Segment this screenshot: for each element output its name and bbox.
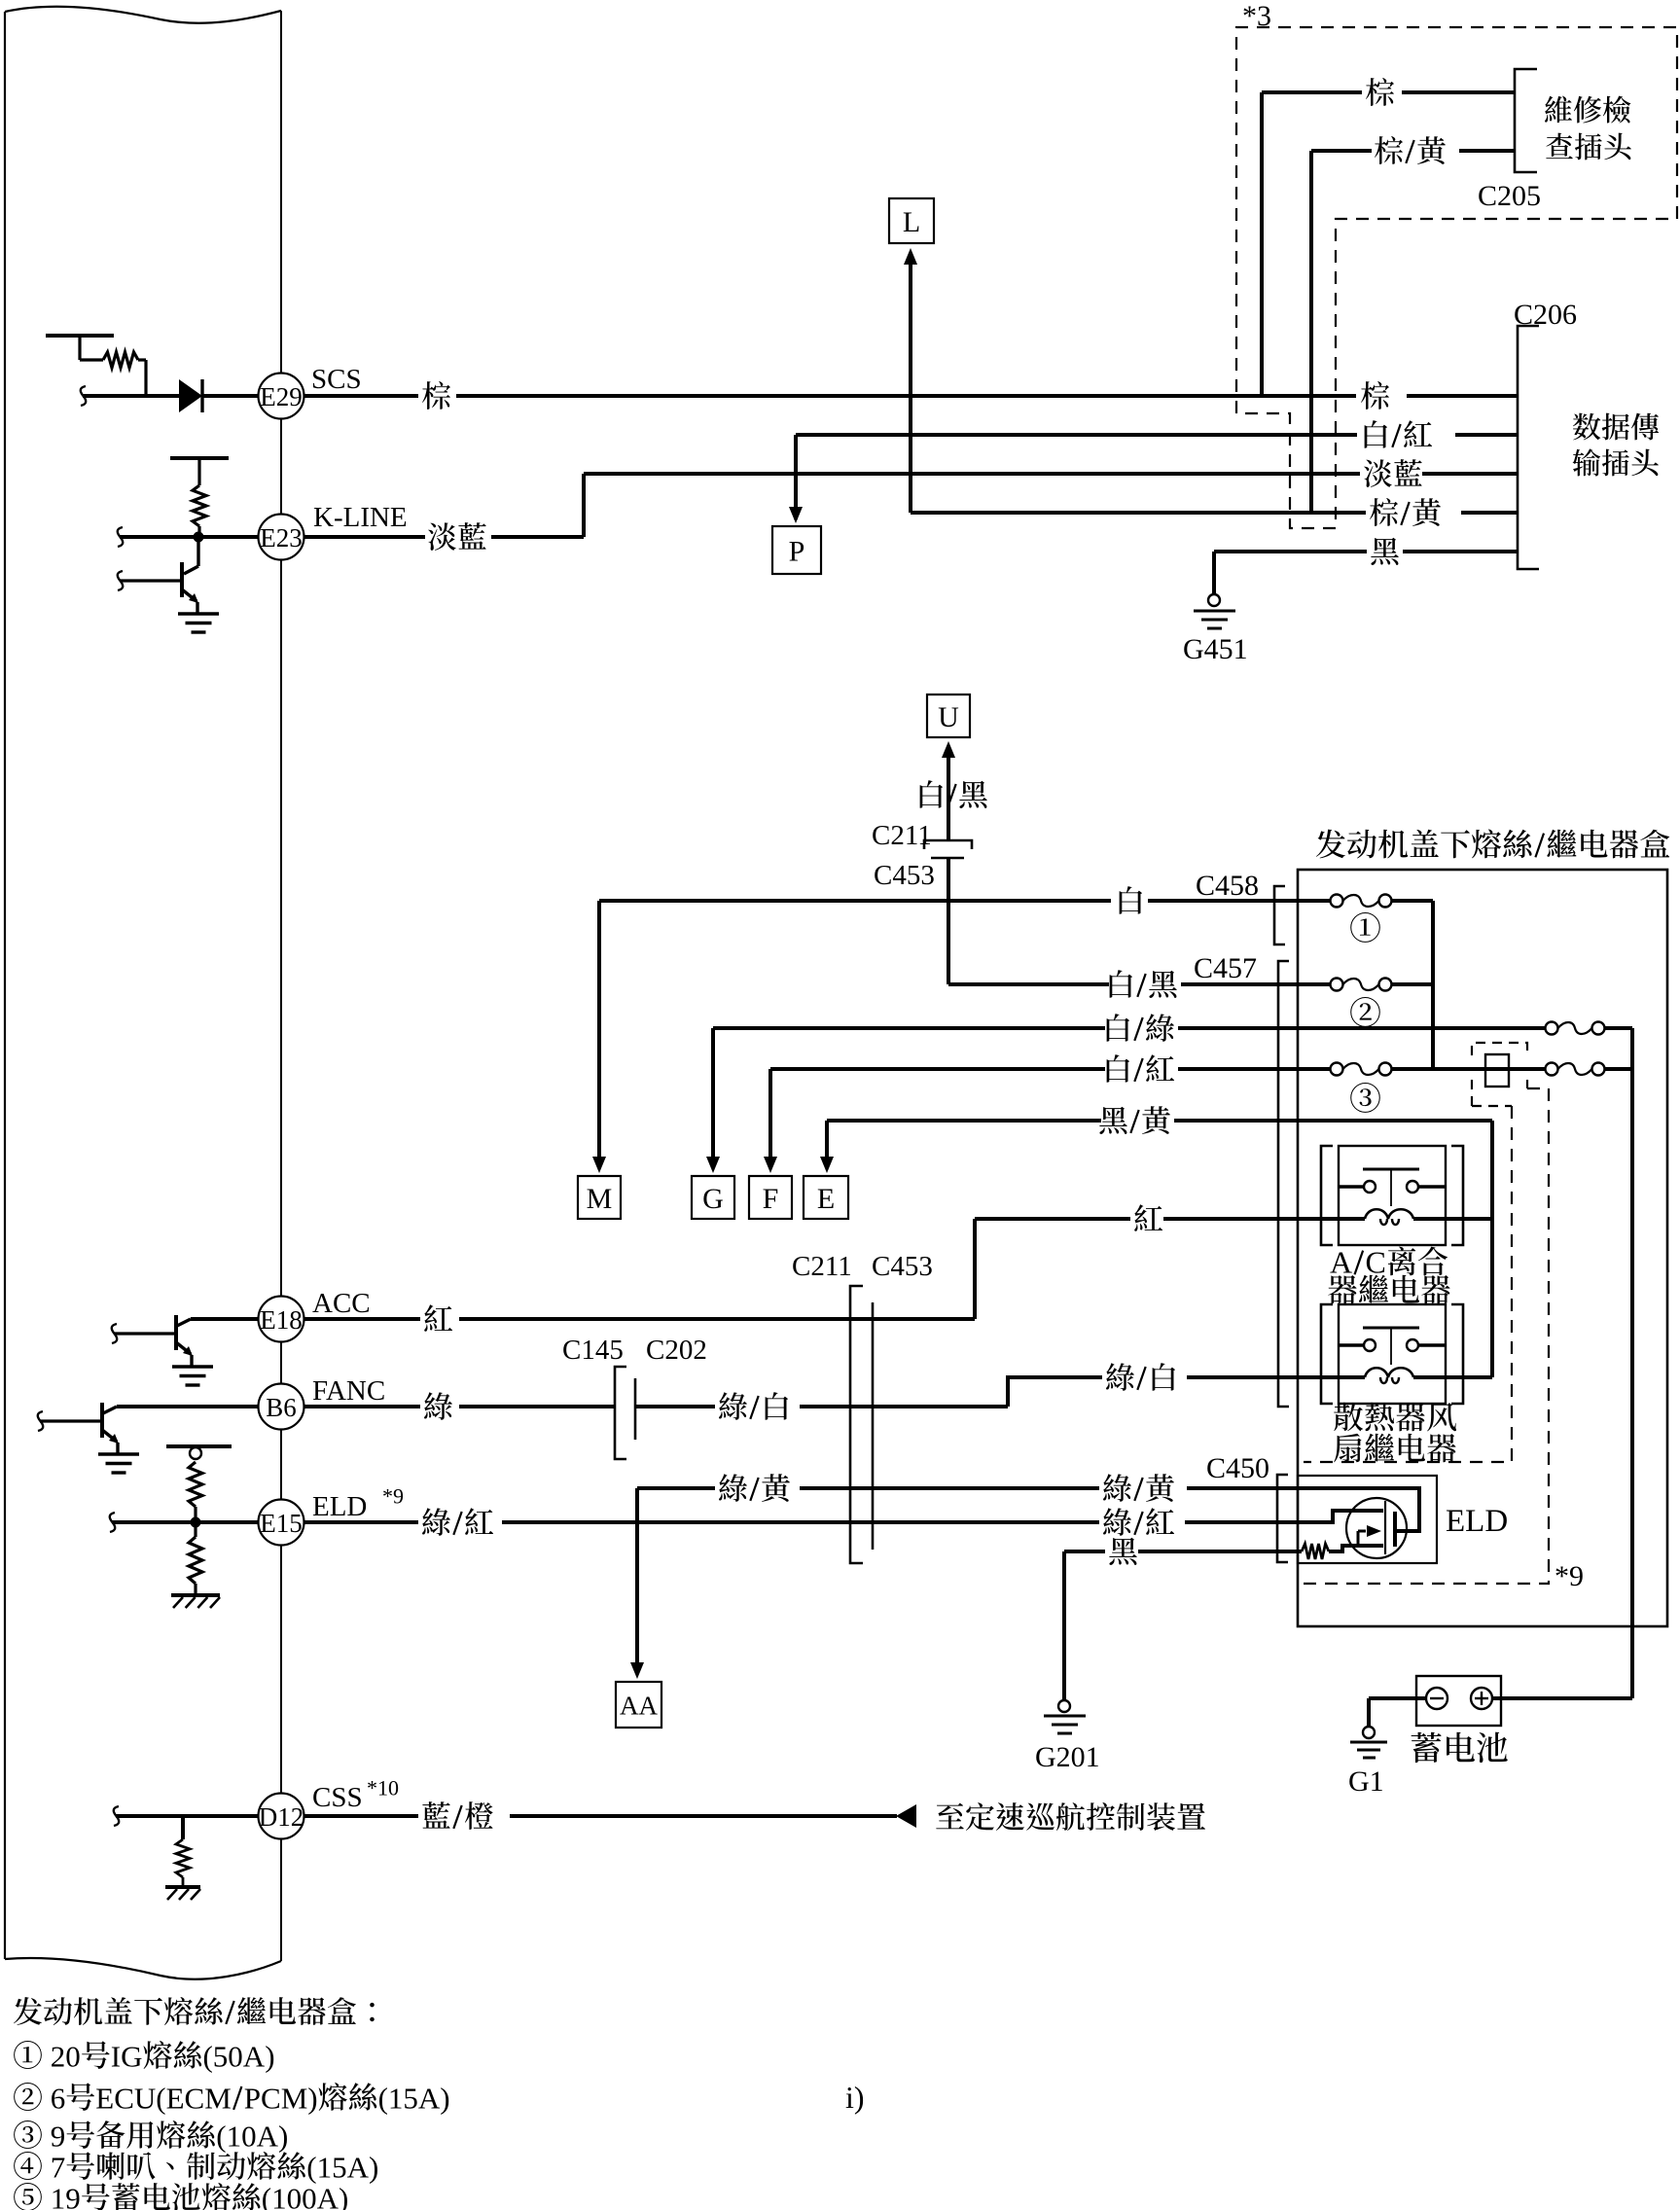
ground (transistor emitter): [98, 1454, 139, 1473]
transistor ELD (FET in circle): [1346, 1498, 1407, 1558]
label white/green: [1107, 1014, 1129, 1042]
svg-text:A: A: [347, 2150, 370, 2184]
svg-text:E: E: [95, 2081, 114, 2115]
label white: [1120, 886, 1142, 914]
svg-text:E: E: [817, 1183, 835, 1215]
node junction ELD: [191, 1517, 201, 1528]
node U flow arrow: [927, 695, 970, 813]
gate arrow inside ELD: [1358, 1525, 1381, 1546]
wire ELD internal: [110, 1513, 259, 1532]
transistor (ACC driver): [177, 1319, 259, 1326]
dashed *9 boundary right: [1304, 1088, 1549, 1584]
svg-text:0: 0: [228, 2039, 243, 2073]
wire K-LINE light blue: [304, 474, 1518, 537]
ECU connector band: [5, 7, 281, 1979]
wire battery minus: [1369, 1698, 1426, 1727]
svg-text:5: 5: [332, 2150, 347, 2184]
ELD unit box: [1298, 1476, 1508, 1563]
wire blue/orange: [304, 1814, 897, 1818]
wire white/black row: [948, 982, 1331, 986]
svg-text:): ): [265, 2039, 274, 2073]
svg-text:G: G: [702, 1183, 724, 1215]
wire black/yellow row: [820, 1121, 1492, 1173]
wire green/yellow row: [630, 1488, 1298, 1679]
wire white/red row: [764, 1069, 1331, 1173]
svg-text:L: L: [903, 206, 920, 238]
fuse 5 (battery) right: [1546, 1063, 1633, 1076]
ground G1: [1348, 1727, 1387, 1798]
wire black (ELD ground): [1064, 1551, 1298, 1700]
svg-text:C453: C453: [874, 860, 935, 891]
relay radiator fan: [1321, 1304, 1463, 1404]
label light-blue (C206): [1364, 459, 1392, 486]
label white/red (C206): [1365, 420, 1387, 448]
svg-text:M: M: [281, 2081, 308, 2115]
resistor (ELD sense): [1298, 1544, 1383, 1559]
wire green (FANC): [304, 1405, 615, 1408]
connector C206 bracket: [1514, 299, 1577, 569]
connector C457 bracket: [1194, 952, 1289, 1407]
ground (CSS pulldown): [165, 1887, 200, 1900]
svg-text:A: A: [317, 2181, 340, 2210]
connector C211/C453 (white/black wire): [872, 820, 972, 891]
label green/yellow (left): [719, 1474, 747, 1502]
svg-text:i): i): [845, 2080, 865, 2115]
svg-text:E29: E29: [260, 382, 303, 411]
resistor (pull-up at SCS): [46, 336, 146, 396]
svg-text:C: C: [1366, 1245, 1386, 1280]
wire white/red row to C206: [796, 433, 1518, 437]
svg-text:U: U: [134, 2081, 156, 2115]
svg-text:*9: *9: [1555, 1560, 1584, 1592]
wire battery feed vertical: [1630, 1028, 1634, 1698]
label green: [424, 1392, 452, 1420]
svg-text:C: C: [185, 2081, 205, 2115]
svg-text:G201: G201: [1035, 1741, 1100, 1773]
fuse/relay box outline: [1298, 870, 1667, 1626]
legend title: [14, 1997, 42, 2025]
svg-text:E15: E15: [260, 1509, 303, 1538]
wire white/black vertical: [947, 813, 950, 984]
node E flow arrow: [804, 1176, 848, 1219]
svg-text:AA: AA: [620, 1692, 658, 1721]
svg-text:A: A: [243, 2039, 266, 2073]
svg-text:(: (: [216, 2119, 226, 2153]
label A/C clutch relay: [1328, 1245, 1449, 1304]
svg-text:I: I: [111, 2039, 121, 2073]
svg-text:6: 6: [51, 2081, 66, 2115]
svg-text:C450: C450: [1206, 1452, 1269, 1484]
label service check connector: [1545, 96, 1631, 160]
diode (SCS line): [179, 379, 259, 412]
svg-text:1: 1: [227, 2119, 242, 2153]
fuse 4 (horn/brake) right top: [1546, 1022, 1633, 1035]
label green/white (left): [719, 1392, 747, 1420]
label blue/orange: [422, 1801, 449, 1829]
svg-text:0: 0: [65, 2039, 81, 2073]
wire A/C relay coil to black/yellow vertical: [1446, 1217, 1492, 1221]
svg-text:*10: *10: [367, 1776, 399, 1800]
label brown/yellow (C205): [1375, 136, 1403, 164]
battery: [1416, 1676, 1501, 1726]
label brown (C206): [1361, 381, 1389, 410]
label battery: [1412, 1732, 1442, 1763]
node L flow arrow: [889, 198, 934, 513]
label fuse 1: [1350, 912, 1380, 943]
label white/black (row): [1110, 970, 1132, 998]
connector C211/C453 (main harness): [792, 1251, 933, 1563]
pin E15: [259, 1484, 405, 1546]
ground (divider): [171, 1595, 220, 1608]
label green/white (right): [1106, 1363, 1134, 1391]
svg-text:2: 2: [51, 2039, 66, 2073]
label under-hood fuse/relay box title: [1316, 830, 1345, 859]
svg-text:0: 0: [287, 2181, 303, 2210]
svg-text:ELD: ELD: [1446, 1504, 1508, 1539]
node M flow arrow: [578, 1176, 621, 1219]
wire brown/yellow row to C206: [911, 511, 1518, 515]
wire brown to C205: [1262, 92, 1515, 396]
svg-text:(: (: [378, 2081, 388, 2115]
svg-text:U: U: [938, 701, 959, 733]
voltage supply with resistor divider (ELD input): [166, 1446, 232, 1517]
relay (small, dashed): [1472, 1043, 1527, 1106]
svg-text:C206: C206: [1514, 299, 1577, 331]
label brown (C205): [1366, 78, 1394, 106]
svg-text:(: (: [262, 2181, 271, 2210]
pin E23: [259, 502, 408, 560]
relay A/C compressor clutch: [1321, 1146, 1463, 1245]
ground (transistor emitter): [172, 1367, 213, 1385]
label fuse 2: [1350, 997, 1380, 1027]
wire SCS internal: [81, 386, 179, 406]
svg-text:C458: C458: [1196, 870, 1259, 902]
label red (ACC): [424, 1304, 452, 1332]
svg-text:9: 9: [51, 2119, 66, 2153]
node junction K-LINE: [194, 532, 204, 543]
svg-text:K-LINE: K-LINE: [313, 502, 408, 533]
svg-text:0: 0: [302, 2181, 317, 2210]
arrow to cruise control: [896, 1804, 916, 1828]
svg-text:C202: C202: [646, 1335, 707, 1366]
wire red row: [975, 1219, 1339, 1319]
svg-text:F: F: [763, 1183, 779, 1215]
svg-text:A: A: [1330, 1245, 1352, 1280]
wire battery plus: [1492, 1696, 1632, 1700]
connector C450 bracket: [1206, 1452, 1288, 1562]
label to cruise control unit: [936, 1803, 964, 1830]
svg-text:E23: E23: [260, 523, 303, 552]
svg-text:C457: C457: [1194, 952, 1257, 984]
legend item 5: [14, 2181, 348, 2210]
fuse 3: [1298, 1063, 1546, 1076]
svg-text:C145: C145: [562, 1335, 624, 1366]
svg-text:C: C: [114, 2081, 134, 2115]
pin B6: [259, 1375, 386, 1430]
svg-text:E: E: [166, 2081, 185, 2115]
svg-text:1: 1: [388, 2081, 404, 2115]
wire CSS internal: [114, 1806, 259, 1826]
svg-text:1: 1: [51, 2181, 66, 2210]
label green/yellow (right): [1103, 1474, 1131, 1502]
label green/red (right): [1103, 1508, 1131, 1536]
svg-text:P: P: [789, 536, 805, 568]
svg-text:(: (: [156, 2081, 165, 2115]
wire fan relay coil to vertical: [1446, 1375, 1492, 1379]
svg-text:): ): [369, 2150, 378, 2184]
legend item 3: [14, 2119, 288, 2153]
wire black to C206: [1214, 552, 1518, 593]
wire red (ACC): [304, 1317, 975, 1321]
resistor (CSS pulldown): [176, 1816, 190, 1885]
label radiator fan relay: [1334, 1403, 1456, 1463]
svg-text:SCS: SCS: [311, 364, 362, 395]
svg-text:A: A: [418, 2081, 441, 2115]
wire green/yellow inside ELD: [1298, 1488, 1419, 1531]
label white/red (row): [1107, 1054, 1129, 1083]
svg-text:C211: C211: [872, 820, 932, 851]
label black/yellow: [1099, 1107, 1127, 1134]
svg-text:G451: G451: [1183, 633, 1248, 665]
label red: [1134, 1204, 1162, 1231]
label light-blue (K-LINE): [428, 522, 456, 550]
svg-text:C453: C453: [872, 1251, 933, 1282]
svg-text:C: C: [261, 2081, 281, 2115]
label green/red (left): [422, 1508, 450, 1536]
node F flow arrow: [749, 1176, 792, 1219]
svg-text:5: 5: [403, 2081, 418, 2115]
svg-text:*3: *3: [1242, 0, 1271, 32]
pin D12: [259, 1776, 400, 1839]
legend item 2: [14, 2081, 449, 2115]
svg-text:1: 1: [317, 2150, 333, 2184]
svg-text:7: 7: [51, 2150, 66, 2184]
ground G201: [1035, 1700, 1100, 1773]
dashed *9 boundary left: [1304, 1106, 1512, 1462]
label black (ELD): [1109, 1538, 1137, 1565]
legend item 1: [14, 2039, 274, 2073]
transistor (FANC driver): [103, 1407, 259, 1413]
svg-text:D12: D12: [259, 1802, 304, 1832]
svg-text:G: G: [121, 2039, 142, 2073]
label brown (SCS): [422, 381, 450, 410]
pin E29: [259, 364, 362, 419]
node P flow arrow: [772, 435, 821, 574]
svg-text:C211: C211: [792, 1251, 852, 1282]
fuse 2: [1298, 979, 1433, 991]
svg-text:): ): [339, 2181, 348, 2210]
label black (C206): [1371, 538, 1399, 565]
svg-text:P: P: [244, 2081, 261, 2115]
svg-text:CSS: CSS: [312, 1782, 363, 1813]
connector C458 bracket: [1196, 870, 1285, 945]
label white/black (vertical): [920, 780, 943, 808]
svg-text:9: 9: [65, 2181, 81, 2210]
svg-text:(: (: [203, 2039, 213, 2073]
node AA flow arrow: [616, 1682, 661, 1728]
svg-text:5: 5: [213, 2039, 229, 2073]
svg-text:B6: B6: [266, 1393, 297, 1422]
svg-text:FANC: FANC: [312, 1375, 385, 1407]
wire SCS brown to C206: [304, 394, 1518, 398]
svg-text:ELD: ELD: [312, 1491, 367, 1522]
wire green/white: [635, 1377, 1339, 1407]
svg-text:C205: C205: [1478, 180, 1541, 212]
wire black/yellow vertical: [1490, 1121, 1494, 1377]
svg-text:0: 0: [241, 2119, 257, 2153]
wire brown/yellow to C205: [1311, 151, 1515, 513]
wire white row: [592, 901, 1331, 1173]
svg-text:): ): [440, 2081, 449, 2115]
svg-text:1: 1: [271, 2181, 287, 2210]
resistor (lower divider): [189, 1527, 202, 1593]
legend item 4: [14, 2150, 378, 2184]
wire fuse1/2 junction vertical: [1431, 901, 1435, 1069]
svg-text:M: M: [204, 2081, 232, 2115]
resistor (pull-up at K-LINE): [170, 458, 229, 532]
wire white/green row: [706, 1028, 1546, 1173]
svg-text:A: A: [257, 2119, 279, 2153]
connector C145/C202: [562, 1335, 707, 1459]
svg-text:ACC: ACC: [312, 1288, 371, 1319]
svg-text:*9: *9: [382, 1484, 404, 1509]
node G flow arrow: [692, 1176, 734, 1219]
svg-text:(: (: [306, 2150, 316, 2184]
label data link connector: [1573, 413, 1660, 477]
svg-text:): ): [278, 2119, 288, 2153]
pin E18: [259, 1288, 371, 1342]
wire green/red inside ELD: [1298, 1511, 1383, 1522]
fuse 1: [1298, 895, 1433, 908]
svg-text:): ): [307, 2081, 317, 2115]
wire green/red: [304, 1520, 1298, 1524]
label brown/yellow (C206): [1370, 498, 1398, 526]
ground (transistor emitter): [178, 614, 219, 632]
ground G451: [1183, 594, 1248, 665]
svg-text:M: M: [587, 1183, 613, 1215]
connector C205 bracket: [1478, 69, 1541, 212]
label fuse 3: [1350, 1083, 1380, 1113]
transistor (K-LINE driver): [118, 537, 198, 613]
wire K-LINE internal: [118, 527, 259, 547]
svg-text:E18: E18: [260, 1305, 303, 1335]
dashed optional region *3: [1236, 27, 1677, 528]
svg-text:G1: G1: [1348, 1765, 1384, 1798]
